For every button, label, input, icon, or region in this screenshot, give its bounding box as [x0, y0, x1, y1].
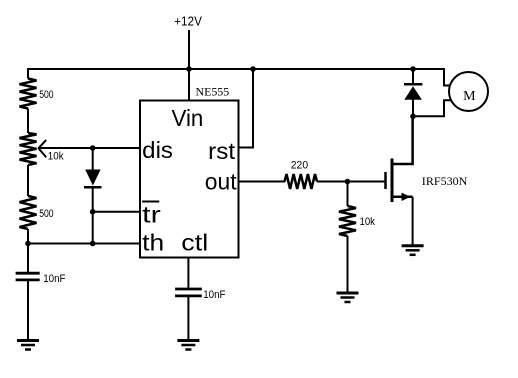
wire: R1 to potentiometer: [27, 109, 29, 134]
wire: R3 to gate: [317, 181, 385, 183]
ground: source: [402, 246, 424, 255]
node: +12V / Vin junction: [186, 66, 192, 72]
node: rst junction on rail: [250, 66, 256, 72]
svg-text:rst: rst: [208, 138, 236, 164]
svg-text:ctl: ctl: [181, 229, 208, 255]
svg-text:10k: 10k: [48, 151, 64, 163]
wire: th pin: [28, 243, 140, 245]
capacitor C2 10nF: [175, 289, 202, 340]
svg-text:tr: tr: [142, 202, 161, 228]
svg-text:th: th: [142, 229, 164, 255]
diode D2 flyback: [404, 69, 422, 117]
wire: pot wiper to dis pin: [38, 147, 140, 149]
wire: ctl pin down: [187, 258, 189, 290]
pin label tr with overline: [142, 202, 161, 228]
wire: +12V down to rail and Vin pin: [188, 30, 190, 102]
wire: motor bottom bracket: [413, 100, 451, 116]
node: diode branch / th junction: [90, 241, 96, 247]
svg-text:Vin: Vin: [172, 105, 204, 131]
wire: pot to R2: [27, 165, 29, 196]
svg-text:10nF: 10nF: [203, 289, 226, 301]
resistor R2 500: [20, 196, 37, 229]
svg-text:IRF530N: IRF530N: [422, 174, 468, 188]
svg-text:10nF: 10nF: [43, 273, 66, 285]
node: D1 cathode / tr junction: [90, 209, 96, 215]
node: gate / R4 junction: [345, 179, 351, 185]
node: wiper / diode anode junction: [90, 145, 96, 151]
node: th / C1 junction: [25, 241, 31, 247]
svg-text:+12V: +12V: [174, 13, 202, 28]
node: flyback diode top junction: [410, 66, 416, 72]
potentiometer VR1 10k: [20, 133, 47, 165]
svg-text:220: 220: [291, 160, 308, 172]
wire: top power rail: [27, 68, 445, 70]
wire: left rail drop to R1: [27, 68, 29, 79]
capacitor C1 10nF: [16, 273, 40, 340]
wire: R2 to th node: [27, 229, 29, 275]
IC U1 NE555 body: [140, 101, 239, 258]
wire: motor top bracket: [413, 69, 451, 86]
wire: rst pin to rail: [239, 69, 254, 148]
svg-text:10k: 10k: [360, 216, 376, 228]
wire: tr pin: [93, 211, 140, 213]
svg-text:500: 500: [39, 208, 53, 220]
svg-text:out: out: [205, 169, 237, 195]
motor M1: [449, 72, 488, 111]
ground: left (C1): [17, 341, 39, 350]
diode D1 (wiper to trigger): [84, 148, 102, 244]
svg-text:dis: dis: [142, 137, 173, 163]
wire: out pin to R3: [239, 181, 286, 183]
node: flyback / drain junction: [410, 114, 416, 120]
svg-text:NE555: NE555: [196, 85, 230, 99]
resistor R1 500: [20, 79, 37, 109]
resistor R4 10k pulldown: [339, 182, 356, 293]
svg-text:500: 500: [39, 89, 53, 101]
svg-text:M: M: [463, 89, 476, 104]
resistor R3 220: [285, 174, 318, 189]
transistor Q1 IRF530N: [386, 117, 413, 245]
ground: ctl (C2): [177, 341, 199, 350]
ground: R4: [337, 293, 359, 302]
